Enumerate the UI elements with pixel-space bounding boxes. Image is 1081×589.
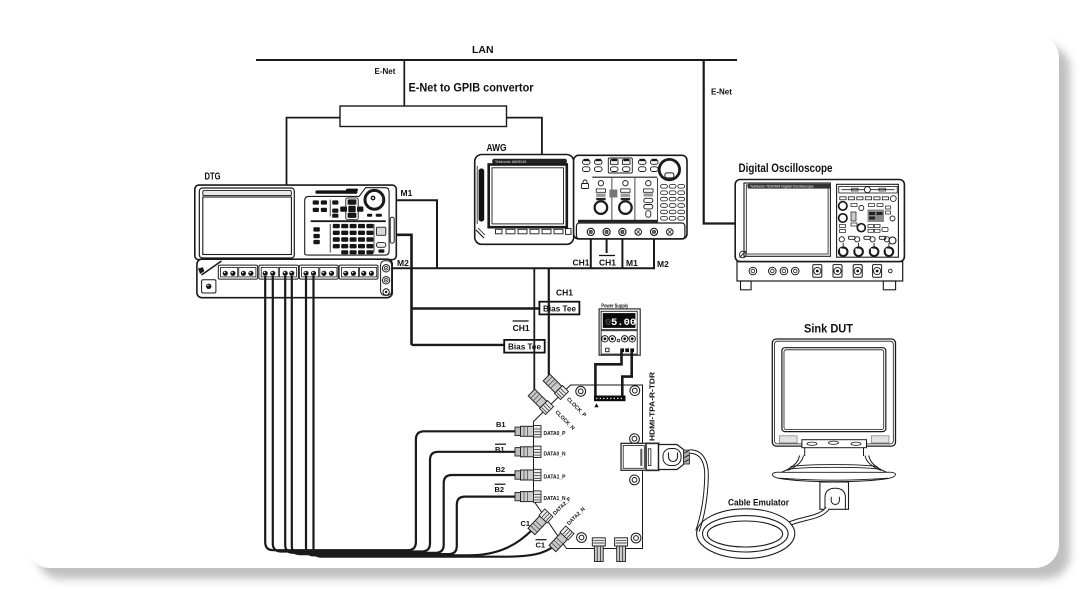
- label E-Net right: [711, 88, 732, 97]
- wire E-Net to oscilloscope: [704, 60, 736, 224]
- wire M2 bus: [390, 267, 654, 269]
- wire converter to AWG: [507, 118, 542, 155]
- svg-text:E-Net to GPIB convertor: E-Net to GPIB convertor: [409, 83, 534, 95]
- label DATA0_N: [544, 451, 566, 457]
- SMA connector DATA0_N: [515, 446, 541, 457]
- cable C1 from DTG: [306, 276, 533, 555]
- label M1 at DTG: [401, 188, 413, 198]
- svg-text:Bias Tee: Bias Tee: [508, 342, 541, 352]
- label E-Net to GPIB convertor: [409, 83, 534, 95]
- converter box U1: [340, 106, 507, 127]
- svg-text:C1: C1: [536, 541, 546, 550]
- wire AWG M1 drop: [621, 236, 623, 268]
- label B2: [496, 465, 506, 474]
- svg-text:DATA0_N: DATA0_N: [544, 451, 566, 457]
- svg-text:CH1: CH1: [573, 258, 590, 268]
- svg-text:E-Net: E-Net: [711, 88, 732, 97]
- label CH1 above Bias Tee: [556, 288, 573, 298]
- svg-text:DATA1_P: DATA1_P: [544, 475, 566, 481]
- svg-text:B1: B1: [496, 420, 506, 429]
- label HDMI-TPA-R-TDR: [648, 371, 657, 441]
- wire LAN: [256, 59, 737, 61]
- label CLOCK_N: [554, 410, 576, 432]
- SMA connector DATA2_N: [548, 526, 574, 552]
- label DATA0_P: [544, 431, 566, 437]
- label DATA2_P: [552, 496, 573, 517]
- label M2 below AWG: [657, 259, 669, 269]
- cable coil to DUT plug: [790, 509, 828, 524]
- label CH1bar above Bias Tee 2: [513, 321, 530, 333]
- bias tee CH1bar box: [504, 340, 545, 353]
- wire AWG CH1 drop: [590, 236, 592, 268]
- svg-text:CH1: CH1: [513, 323, 530, 333]
- label B1: [496, 420, 506, 429]
- svg-text:B2: B2: [496, 465, 506, 474]
- svg-text:C1: C1: [521, 519, 531, 528]
- label B1bar: [495, 444, 506, 454]
- TPA pin1 triangle marker: [594, 403, 598, 407]
- DTG M1 M2 side connectors: [381, 261, 392, 296]
- svg-text:5.00: 5.00: [611, 317, 636, 329]
- svg-text:CH1: CH1: [556, 288, 573, 298]
- SMA connector DATA2_P: [527, 509, 553, 535]
- SMA connector DATA0_P: [515, 426, 541, 437]
- wire to Bias Tee CH1bar: [412, 344, 505, 346]
- power supply PS1: [599, 309, 640, 355]
- DTG output connector groups: [218, 265, 378, 279]
- label B2bar: [495, 484, 506, 494]
- label AWG: [487, 143, 507, 154]
- label DTG: [205, 172, 221, 183]
- wire E-Net drop to converter: [403, 60, 405, 106]
- wire converter to DTG: [287, 118, 341, 185]
- label DATA1_N: [544, 496, 566, 502]
- cable C1bar from DTG: [314, 276, 554, 557]
- svg-text:M2: M2: [397, 258, 409, 268]
- wire to Bias Tee CH1: [412, 307, 540, 309]
- wire bus to CLOCK_P column: [548, 268, 550, 378]
- wire DTG M1 output: [396, 200, 437, 268]
- label C1bar: [536, 540, 547, 550]
- bias tee CH1 box: [539, 302, 579, 315]
- label CH1 below AWG: [573, 258, 590, 268]
- wire AWG CH1bar stub: [606, 236, 608, 253]
- svg-text:B2: B2: [495, 485, 505, 494]
- cable B2bar from DTG: [292, 276, 516, 554]
- svg-text:AWG: AWG: [487, 143, 507, 154]
- svg-text:DTG: DTG: [205, 172, 221, 183]
- svg-text:CH1: CH1: [599, 258, 616, 268]
- SMA connector CLOCK_P: [543, 374, 569, 400]
- TPA HDMI receptacle and plug: [621, 443, 690, 470]
- label E-Net left: [375, 67, 396, 76]
- TPA board HDMI-TPA-R-TDR: [534, 385, 643, 549]
- svg-text:Sink DUT: Sink DUT: [804, 322, 854, 336]
- label M1 below AWG: [626, 258, 638, 268]
- svg-text:Digital Oscilloscope: Digital Oscilloscope: [739, 161, 833, 175]
- wire AWG M2 drop: [653, 236, 655, 269]
- label Digital Oscilloscope: [739, 161, 833, 175]
- svg-text:E-Net: E-Net: [375, 67, 396, 76]
- AWG output connector bar: [576, 223, 685, 239]
- svg-text:Tektronix TDS7404 Digital Os: Tektronix TDS7404 Digital Oscilloscope: [750, 185, 814, 189]
- label Power Supply: [601, 303, 629, 309]
- instrument DTG: [195, 185, 396, 260]
- instrument AWG: [475, 155, 687, 245]
- label CH1bar below AWG: [599, 256, 616, 268]
- cable TPA to coil: [690, 452, 707, 532]
- label CLOCK_P: [565, 397, 587, 419]
- wire PSU lead 2: [622, 352, 631, 396]
- sink DUT monitor: [772, 339, 895, 482]
- label Cable Emulator: [728, 498, 789, 508]
- cable B1bar from DTG: [273, 276, 516, 552]
- wire PSU lead 1: [595, 352, 621, 396]
- TPA bottom SMA connectors: [592, 538, 627, 562]
- cable emulator coil: [697, 509, 795, 559]
- svg-text:M1: M1: [626, 258, 638, 268]
- wire bus to CLOCK_N column: [533, 268, 535, 394]
- wire DTG data output trunk: [396, 235, 412, 345]
- label M2 at DTG: [397, 258, 409, 268]
- DTG lower connector section: [197, 259, 392, 298]
- svg-text:M2: M2: [657, 259, 669, 269]
- cable B2 from DTG: [285, 276, 516, 553]
- SMA connector DATA1_N: [515, 491, 541, 502]
- SMA connector DATA1_P: [515, 469, 541, 480]
- label Sink DUT: [804, 322, 854, 336]
- svg-text:LAN: LAN: [472, 44, 494, 56]
- oscilloscope lower connector bar: [737, 262, 903, 290]
- svg-text:HDMI-TPA-R-TDR: HDMI-TPA-R-TDR: [648, 371, 657, 441]
- SMA connector CLOCK_N: [528, 389, 554, 415]
- label LAN: [472, 44, 494, 56]
- TPA pin header J1: [594, 396, 626, 402]
- svg-text:Cable Emulator: Cable Emulator: [728, 498, 789, 508]
- svg-text:M1: M1: [401, 188, 413, 198]
- label DATA1_P: [544, 475, 566, 481]
- instrument oscilloscope: [735, 180, 904, 262]
- label DATA2_N: [566, 506, 587, 527]
- cable B1 from DTG: [265, 276, 516, 550]
- svg-text:DATA0_P: DATA0_P: [544, 431, 566, 437]
- DUT HDMI plug: [820, 482, 849, 509]
- label C1: [521, 519, 531, 528]
